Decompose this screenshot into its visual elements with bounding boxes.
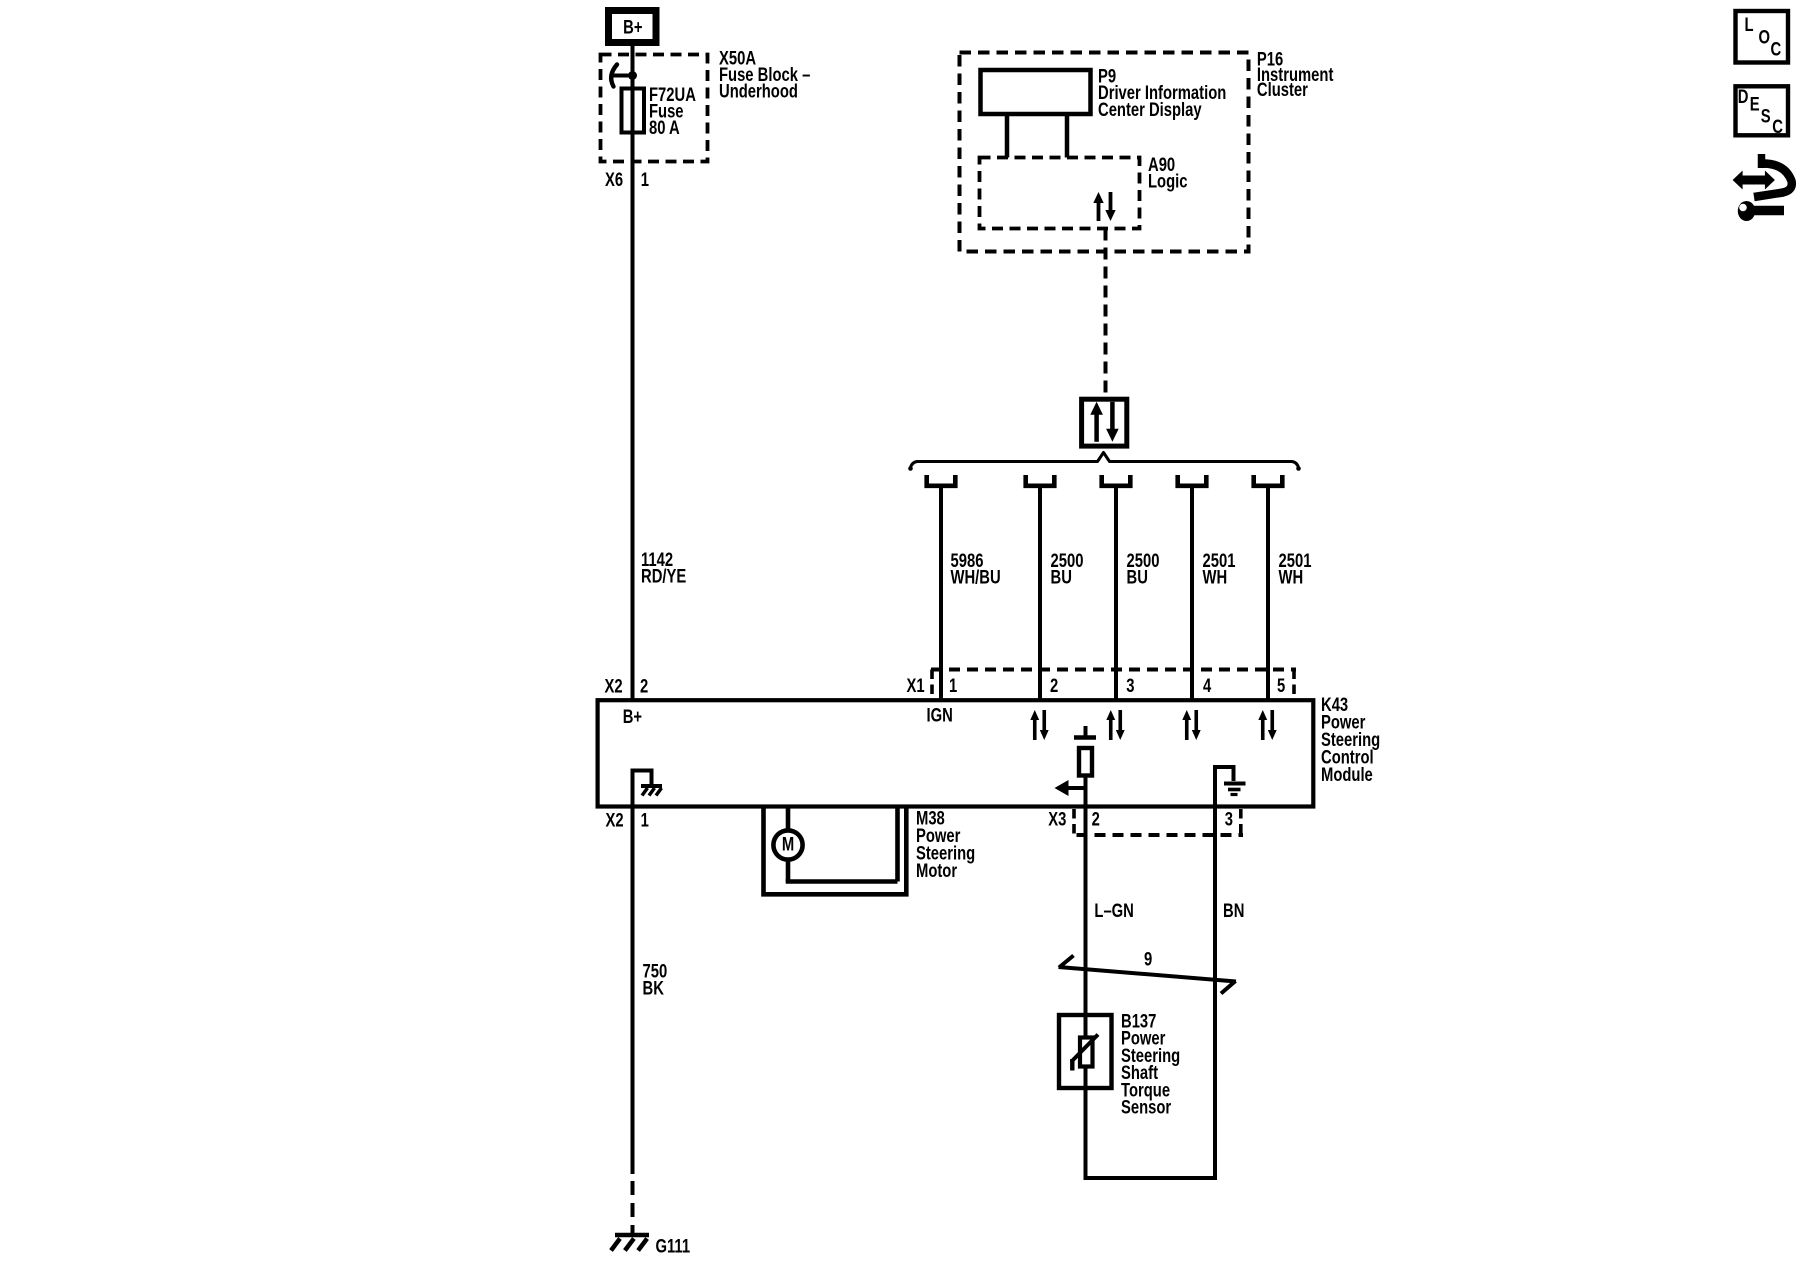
svg-text:X2: X2 (606, 810, 624, 831)
svg-text:BU: BU (1051, 567, 1072, 588)
svg-text:4: 4 (1203, 675, 1212, 696)
svg-text:E: E (1750, 94, 1760, 115)
svg-text:IGN: IGN (927, 705, 953, 726)
svg-text:X2: X2 (605, 676, 623, 697)
svg-text:80 A: 80 A (649, 117, 680, 138)
svg-text:WH/BU: WH/BU (951, 567, 1001, 588)
svg-text:RD/YE: RD/YE (641, 566, 686, 587)
svg-text:Motor: Motor (916, 860, 957, 881)
svg-text:BU: BU (1127, 567, 1148, 588)
svg-text:C: C (1771, 39, 1782, 60)
svg-text:Center Display: Center Display (1098, 99, 1202, 120)
svg-text:X1: X1 (907, 675, 925, 696)
svg-text:BN: BN (1223, 900, 1244, 921)
svg-text:2: 2 (640, 676, 648, 697)
svg-text:BK: BK (643, 978, 665, 999)
svg-text:C: C (1772, 116, 1783, 137)
svg-text:9: 9 (1144, 949, 1152, 970)
svg-text:2: 2 (1092, 809, 1100, 830)
svg-text:1: 1 (641, 169, 649, 190)
svg-text:X3: X3 (1048, 809, 1066, 830)
svg-text:WH: WH (1279, 567, 1304, 588)
svg-text:L: L (1745, 14, 1754, 35)
svg-text:Cluster: Cluster (1257, 79, 1308, 100)
svg-text:3: 3 (1126, 675, 1134, 696)
svg-text:S: S (1761, 106, 1771, 127)
svg-text:Sensor: Sensor (1121, 1097, 1172, 1118)
svg-text:G111: G111 (656, 1236, 691, 1257)
svg-text:B+: B+ (623, 706, 642, 727)
svg-text:1: 1 (641, 810, 649, 831)
svg-text:B+: B+ (623, 17, 642, 38)
svg-text:X6: X6 (605, 169, 623, 190)
svg-text:Module: Module (1321, 764, 1373, 785)
svg-text:2: 2 (1050, 675, 1058, 696)
svg-text:L–GN: L–GN (1094, 900, 1133, 921)
svg-text:3: 3 (1225, 809, 1233, 830)
svg-text:WH: WH (1203, 567, 1228, 588)
svg-text:Logic: Logic (1148, 171, 1187, 192)
svg-text:D: D (1738, 86, 1749, 107)
svg-text:Underhood: Underhood (719, 81, 798, 102)
svg-text:1: 1 (949, 675, 957, 696)
svg-text:5: 5 (1277, 675, 1285, 696)
svg-text:O: O (1759, 27, 1771, 48)
svg-text:M: M (782, 834, 794, 855)
